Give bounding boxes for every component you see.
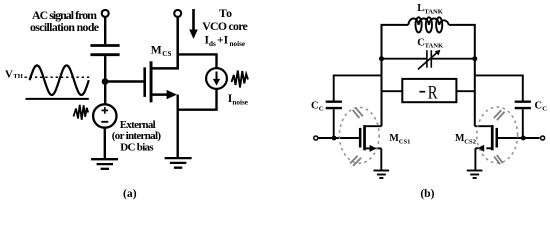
- svg-text:noise: noise: [230, 40, 246, 48]
- dashed noise ellipse (M_CS2): [477, 107, 518, 163]
- svg-text:V: V: [5, 69, 13, 81]
- wire C_C branch right: [475, 75, 523, 100]
- svg-text:L: L: [417, 3, 424, 14]
- current flow arrow (Ids+Inoise): [192, 9, 195, 32]
- wire C_C branch left: [334, 75, 382, 100]
- svg-text:(b): (b): [420, 187, 434, 200]
- wire left gate: [319, 137, 359, 139]
- dashed threshold line: [25, 76, 92, 78]
- wire top rail to inductor: [381, 24, 409, 26]
- ground (M_CS1): [374, 171, 390, 179]
- svg-text:VCO core: VCO core: [202, 19, 248, 33]
- break slashes upper-right M_CS2: [494, 110, 505, 120]
- noise squiggle (DC source): [74, 105, 89, 120]
- break slashes lower-right M_CS2: [494, 155, 503, 164]
- terminal (AC input node): [102, 10, 109, 17]
- wire right tank rail: [474, 25, 476, 126]
- svg-text:DC bias: DC bias: [120, 142, 154, 154]
- svg-text:C: C: [535, 101, 543, 112]
- label -R: [419, 91, 425, 93]
- svg-text:oscillation node: oscillation node: [30, 20, 99, 34]
- svg-text:CS: CS: [162, 50, 171, 58]
- node (gate M_CS2): [521, 136, 526, 141]
- wire C_C right to gate node: [522, 109, 524, 138]
- wire terminal to coupling cap: [104, 17, 106, 44]
- svg-text:(or internal): (or internal): [112, 130, 162, 142]
- capacitor C_C right: [515, 102, 531, 108]
- ground (M_CS2): [467, 171, 483, 179]
- svg-text:M: M: [151, 43, 162, 56]
- dashed noise ellipse (M_CS1): [339, 107, 379, 163]
- node (gate M_CS1): [332, 136, 337, 141]
- svg-text:TANK: TANK: [424, 8, 443, 15]
- wire cap to node to DC source: [104, 56, 106, 105]
- svg-text:TANK: TANK: [425, 43, 444, 50]
- svg-text:(a): (a): [123, 187, 137, 200]
- ground (under DC source): [91, 159, 118, 169]
- label To VCO core: [202, 6, 248, 33]
- negative resistance box -R: [402, 79, 456, 102]
- break slashes upper-left M_CS1: [353, 108, 363, 118]
- transistor M_CS1 gate bar: [359, 128, 362, 148]
- transistor M_CS channel bar: [150, 61, 153, 102]
- node (tank left): [379, 56, 384, 61]
- wire source to ground: [176, 95, 178, 158]
- DC bias source: [93, 104, 116, 127]
- wire right gate: [498, 137, 540, 139]
- transistor M_CS1 channel bar: [363, 125, 366, 150]
- capacitor (coupling cap, fig a): [90, 46, 119, 55]
- label I_ds + I_noise: [205, 34, 246, 48]
- node (gate node, fig a): [102, 78, 109, 85]
- wire drain M_CS1: [365, 125, 382, 127]
- wire current source bottom: [178, 89, 217, 110]
- break slashes lower-left M_CS1: [350, 156, 361, 166]
- node (tank right): [472, 56, 477, 61]
- label External (or internal) DC bias: [112, 119, 162, 154]
- svg-text:R: R: [428, 82, 438, 103]
- svg-text:External: External: [120, 119, 156, 131]
- wire branch to noise current source: [178, 54, 217, 68]
- capacitor C_C left: [326, 102, 342, 108]
- svg-text:C: C: [319, 106, 324, 113]
- transistor M_CS2 gate bar: [496, 128, 499, 148]
- svg-text:C: C: [311, 101, 319, 112]
- terminal (to VCO core): [174, 10, 181, 17]
- wire drain of M_CS: [151, 17, 178, 68]
- wire drain M_CS2: [475, 125, 493, 127]
- ground (under M_CS source): [165, 158, 192, 168]
- inductor L_TANK: [408, 17, 449, 32]
- wire source of M_CS with arrow: [151, 93, 168, 96]
- noise squiggle (current source): [232, 71, 249, 88]
- svg-text:+I: +I: [217, 34, 229, 47]
- svg-text:ds: ds: [209, 40, 216, 48]
- svg-text:noise: noise: [232, 99, 248, 107]
- transistor M_CS gate bar: [143, 67, 146, 97]
- svg-text:C: C: [542, 106, 547, 113]
- varactor C_TANK: [418, 50, 438, 69]
- transistor M_CS2 channel bar: [491, 125, 494, 150]
- wire left tank rail: [381, 25, 383, 126]
- wire C_TANK branch: [382, 58, 427, 60]
- waveform baseline: [26, 98, 89, 100]
- current source I_noise: [206, 68, 227, 89]
- svg-text:CS2: CS2: [464, 138, 476, 145]
- terminal left: [314, 136, 318, 140]
- wire DC source to ground: [104, 128, 106, 159]
- sine waveform: [30, 66, 89, 95]
- wire source M_CS2 with arrow: [486, 147, 492, 149]
- wire -R right: [456, 90, 474, 92]
- svg-text:TH: TH: [13, 73, 23, 80]
- wire C_C left to gate node: [333, 109, 335, 138]
- wire source M_CS1 with arrow: [365, 147, 371, 149]
- terminal right: [541, 136, 545, 140]
- wire -R left: [382, 90, 403, 92]
- wire gate (node to M_CS gate): [105, 80, 144, 82]
- svg-text:CS1: CS1: [399, 138, 411, 145]
- label: AC signal from oscillation node: [30, 8, 99, 34]
